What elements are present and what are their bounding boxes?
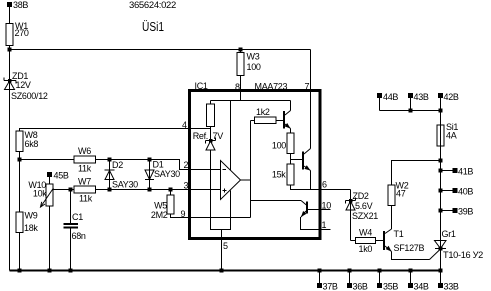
wire W5 top stub bbox=[170, 190, 172, 196]
wire 38B to W1 bbox=[9, 7, 11, 24]
svg-text:40B: 40B bbox=[458, 187, 473, 197]
wire W2 to T1 collector bbox=[391, 206, 393, 230]
svg-text:35B: 35B bbox=[383, 282, 398, 291]
svg-text:SZX21: SZX21 bbox=[352, 211, 378, 221]
resistor W4 1k0 bbox=[356, 228, 376, 255]
svg-text:68n: 68n bbox=[72, 231, 86, 241]
node 43B junction dot bbox=[409, 109, 413, 113]
terminal 34B bbox=[408, 269, 429, 291]
thyristor Gr1 T10-16 bbox=[435, 229, 484, 260]
svg-text:SF127B: SF127B bbox=[394, 243, 425, 253]
transistor Q2 bbox=[303, 149, 311, 190]
svg-text:37B: 37B bbox=[323, 282, 338, 291]
wire pin2 net left bbox=[20, 160, 221, 170]
svg-text:2: 2 bbox=[184, 160, 189, 170]
svg-text:100: 100 bbox=[247, 62, 261, 72]
svg-text:33B: 33B bbox=[444, 282, 459, 291]
zener diode ZD1 12V SZ600/12 bbox=[4, 71, 48, 101]
svg-text:W4: W4 bbox=[359, 228, 372, 238]
svg-text:Gr1: Gr1 bbox=[442, 229, 456, 239]
svg-text:270: 270 bbox=[15, 28, 29, 38]
wire pin10 lead bbox=[308, 209, 331, 211]
svg-text:D1: D1 bbox=[153, 160, 164, 170]
wire Q3 collector from output node bbox=[251, 201, 308, 206]
svg-text:10k: 10k bbox=[33, 189, 47, 199]
wire 100 to 15k bbox=[290, 154, 292, 165]
svg-text:4A: 4A bbox=[446, 131, 457, 141]
wire pin6 net bbox=[291, 185, 351, 190]
svg-text:6: 6 bbox=[322, 180, 327, 190]
node C1 bottom junction dot bbox=[69, 269, 73, 273]
svg-text:7: 7 bbox=[305, 82, 310, 92]
wire W10 bottom bbox=[49, 206, 51, 271]
diode D1 SAY30 bbox=[145, 160, 180, 190]
wire 45B to W10 bbox=[49, 177, 51, 184]
resistor W3 100 bbox=[237, 50, 261, 76]
wire W4 to T1 base bbox=[376, 240, 384, 242]
terminal 41B bbox=[439, 167, 474, 177]
resistor W6 11k bbox=[74, 146, 96, 174]
svg-text:12V: 12V bbox=[16, 80, 31, 90]
wire pin3 net wiper bbox=[53, 189, 221, 191]
svg-text:1k0: 1k0 bbox=[359, 244, 373, 254]
wire top rail y50 bbox=[10, 49, 311, 51]
resistor W5 2M2 bbox=[151, 195, 174, 220]
svg-text:ZD2: ZD2 bbox=[353, 191, 369, 201]
svg-text:1k2: 1k2 bbox=[256, 107, 270, 117]
resistor W7 11k bbox=[74, 177, 96, 204]
terminal 36B bbox=[347, 269, 368, 291]
wire W9 bottom bbox=[19, 233, 21, 271]
resistor W9 18k bbox=[16, 211, 38, 234]
svg-text:Ref.: Ref. bbox=[193, 131, 208, 141]
svg-text:C1: C1 bbox=[72, 212, 83, 222]
svg-text:W3: W3 bbox=[247, 52, 260, 62]
internal resistor bbox=[207, 101, 215, 141]
svg-text:9: 9 bbox=[181, 209, 186, 219]
node W3 top junction dot bbox=[239, 48, 243, 52]
wire pin5 lead bbox=[221, 230, 223, 271]
node D2 bottom junction dot bbox=[108, 188, 112, 192]
wire right rail bbox=[440, 111, 442, 271]
svg-text:T1: T1 bbox=[394, 229, 404, 239]
svg-text:44B: 44B bbox=[383, 92, 398, 102]
resistor 1k2 bbox=[251, 107, 284, 124]
wire W2 branch bbox=[392, 161, 441, 186]
node D1 top junction dot bbox=[148, 158, 152, 162]
wire ZD2 to W4 bbox=[351, 240, 356, 242]
wire W8 bottom to node B bbox=[19, 152, 21, 160]
node B junction dot bbox=[18, 158, 22, 162]
internal resistor 100 bbox=[272, 133, 294, 154]
fuse Si1 4A bbox=[437, 122, 458, 146]
terminal 35B bbox=[377, 269, 398, 291]
svg-text:38B: 38B bbox=[13, 0, 28, 10]
svg-text:11k: 11k bbox=[78, 164, 92, 174]
svg-text:W7: W7 bbox=[78, 177, 91, 187]
node A junction dot bbox=[8, 48, 12, 52]
potentiometer W10 10k bbox=[28, 180, 53, 207]
svg-text:T10-16 У2: T10-16 У2 bbox=[443, 250, 483, 260]
svg-text:5.6V: 5.6V bbox=[355, 201, 373, 211]
zener diode ZD2 5.6V SZX21 bbox=[320, 190, 378, 241]
terminal 39B bbox=[439, 207, 474, 217]
terminal 33B bbox=[438, 271, 459, 291]
svg-text:MAA723: MAA723 bbox=[255, 82, 288, 92]
wire pin8 lead bbox=[240, 76, 242, 101]
svg-text:W9: W9 bbox=[25, 211, 38, 221]
diode D2 SAY30 bbox=[105, 160, 139, 190]
terminal 43B bbox=[408, 92, 429, 111]
svg-text:W5: W5 bbox=[154, 201, 167, 211]
wire op-amp plus supply bbox=[230, 101, 232, 171]
svg-text:W6: W6 bbox=[78, 146, 91, 156]
wire pin9 net bbox=[171, 214, 251, 218]
node W2 branch junction dot bbox=[439, 159, 443, 163]
reference zener Ref 7V bbox=[193, 131, 224, 150]
wire Q2 base bbox=[291, 159, 303, 161]
capacitor C1 68n bbox=[64, 212, 86, 241]
svg-text:1: 1 bbox=[322, 220, 327, 230]
svg-text:IC1: IC1 bbox=[195, 81, 208, 91]
resistor W2 47 bbox=[388, 181, 409, 206]
node W5 top junction dot bbox=[169, 188, 173, 192]
internal resistor 15k bbox=[272, 164, 294, 185]
svg-text:8: 8 bbox=[235, 82, 240, 92]
wire T1 emitter to thyristor gate bbox=[392, 252, 430, 260]
svg-text:100: 100 bbox=[272, 141, 286, 151]
svg-text:45B: 45B bbox=[54, 171, 69, 181]
terminal 45B bbox=[47, 171, 69, 181]
wire left rail ZD1 bbox=[9, 50, 11, 271]
wire op-amp output node bbox=[241, 121, 251, 218]
wire pin7 lead bbox=[310, 50, 312, 149]
svg-text:2M2: 2M2 bbox=[151, 210, 168, 220]
wire W1 to node A bbox=[9, 46, 11, 50]
svg-text:5: 5 bbox=[223, 241, 228, 251]
svg-text:D2: D2 bbox=[112, 160, 123, 170]
node C1 top junction dot bbox=[69, 188, 73, 192]
resistor W1 270 bbox=[6, 21, 29, 46]
wire pin4 net W8 top bbox=[20, 129, 211, 132]
resistor W8 6k8 bbox=[16, 130, 38, 152]
node W10 bottom junction dot bbox=[48, 269, 52, 273]
svg-text:43B: 43B bbox=[414, 92, 429, 102]
terminal 38B bbox=[7, 0, 28, 10]
node 42B junction dot bbox=[439, 109, 443, 113]
svg-text:ÜSi1: ÜSi1 bbox=[142, 20, 164, 34]
svg-text:3: 3 bbox=[184, 181, 189, 191]
svg-text:365624:022: 365624:022 bbox=[129, 0, 176, 10]
node pin5 junction dot bbox=[220, 269, 224, 273]
svg-text:SAY30: SAY30 bbox=[112, 180, 138, 190]
transistor Q1 bbox=[284, 101, 291, 134]
svg-text:47: 47 bbox=[396, 189, 406, 199]
svg-text:SZ600/12: SZ600/12 bbox=[11, 91, 48, 101]
terminal 44B bbox=[377, 92, 398, 111]
svg-text:15k: 15k bbox=[272, 170, 286, 180]
node D1 bottom junction dot bbox=[148, 188, 152, 192]
wire zener to ground bar bbox=[211, 150, 231, 230]
svg-text:41B: 41B bbox=[458, 167, 473, 177]
op-amp U1 bbox=[221, 161, 241, 200]
wire C1 bottom bbox=[70, 228, 72, 271]
wire W9 branch bbox=[19, 160, 21, 213]
transistor Q3 bbox=[301, 202, 331, 230]
wire gate diagonal bbox=[430, 249, 441, 260]
terminal 37B bbox=[317, 269, 338, 291]
op-amp IC1 MAA723 border bbox=[190, 91, 321, 239]
terminal 42B bbox=[438, 92, 459, 111]
svg-text:36B: 36B bbox=[353, 282, 368, 291]
svg-text:34B: 34B bbox=[414, 282, 429, 291]
svg-text:39B: 39B bbox=[458, 207, 473, 217]
wire C1 top bbox=[70, 190, 72, 224]
svg-text:11k: 11k bbox=[79, 194, 93, 204]
svg-text:42B: 42B bbox=[444, 92, 459, 102]
svg-text:4: 4 bbox=[182, 120, 187, 130]
node W9 bottom junction dot bbox=[18, 269, 22, 273]
node D2 top junction dot bbox=[108, 158, 112, 162]
terminal 40B bbox=[439, 187, 474, 197]
bottom rail wire bbox=[10, 270, 441, 272]
wire IC top net bbox=[211, 100, 291, 102]
svg-text:18k: 18k bbox=[24, 223, 38, 233]
svg-text:7V: 7V bbox=[213, 131, 224, 141]
node Gr1 bottom junction dot bbox=[439, 269, 443, 273]
svg-text:6k8: 6k8 bbox=[25, 139, 39, 149]
wire top right bus bbox=[380, 110, 441, 112]
transistor T1 SF127B bbox=[384, 229, 425, 253]
svg-text:SAY30: SAY30 bbox=[154, 169, 180, 179]
